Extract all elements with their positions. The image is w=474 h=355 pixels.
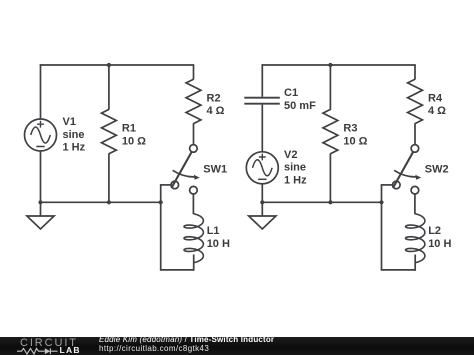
svg-text:R44 Ω: R44 Ω xyxy=(428,92,446,117)
svg-text:V2sine1 Hz: V2sine1 Hz xyxy=(284,149,307,186)
footer bar xyxy=(0,337,474,355)
wire V1 top xyxy=(40,64,42,119)
wire R4 top lead xyxy=(414,65,416,80)
svg-text:SW1: SW1 xyxy=(203,164,227,176)
wire top right circuit xyxy=(262,64,416,66)
wire V1 bottom to ground xyxy=(40,151,42,216)
CircuitLab logo xyxy=(0,337,95,355)
wire R4 to SW2 xyxy=(414,123,416,145)
wire SW2 right throw to L2 xyxy=(414,194,416,214)
wire SW1 right throw to L1 xyxy=(192,194,194,214)
capacitor C1 xyxy=(244,98,279,104)
wire R2 top lead xyxy=(193,65,195,80)
wire inner bottom right xyxy=(381,269,416,271)
svg-text:R310 Ω: R310 Ω xyxy=(343,123,367,148)
wire bottom left circuit xyxy=(41,201,161,203)
wire R3 top lead xyxy=(329,65,331,110)
inductor L1 xyxy=(184,214,203,263)
node ground-right junction xyxy=(260,200,264,204)
node junction R1 bottom xyxy=(107,200,111,204)
svg-text:L110 H: L110 H xyxy=(207,225,230,250)
wire R1 top lead xyxy=(108,65,110,110)
ground left xyxy=(27,216,54,229)
inductor L2 xyxy=(406,214,425,263)
wire R3 bottom lead xyxy=(329,153,331,202)
resistor R1 xyxy=(102,109,117,153)
wire C1 to V2 xyxy=(261,105,263,152)
wire C1 top lead xyxy=(261,64,263,97)
wire R2 to SW1 xyxy=(193,123,195,145)
switch SW2 xyxy=(393,145,422,194)
switch SW1 xyxy=(171,145,200,194)
footer text xyxy=(99,336,274,354)
wire SW1 left throw xyxy=(160,184,171,186)
wire L1 bottom lead xyxy=(193,255,195,271)
node ground-left junction xyxy=(38,200,42,204)
resistor R2 xyxy=(186,79,201,123)
svg-text:L210 H: L210 H xyxy=(428,225,451,250)
svg-text:SW2: SW2 xyxy=(425,164,449,176)
wire V2 bottom to ground xyxy=(261,184,263,216)
node junction R3 bottom xyxy=(328,200,332,204)
resistor R4 xyxy=(408,79,423,123)
node junction R1 top xyxy=(107,63,111,67)
svg-text:R110 Ω: R110 Ω xyxy=(122,123,146,148)
node junction R3 top xyxy=(328,63,332,67)
wire R1 bottom lead xyxy=(108,153,110,202)
wire L2 bottom lead xyxy=(414,255,416,271)
voltage source V1 xyxy=(25,119,57,151)
wire bottom right circuit xyxy=(262,201,381,203)
wire inner-left vertical xyxy=(160,185,162,270)
wire inner bottom xyxy=(160,269,194,271)
svg-text:R24 Ω: R24 Ω xyxy=(207,92,225,117)
node junction bottom-right inner xyxy=(379,200,383,204)
svg-text:V1sine1 Hz: V1sine1 Hz xyxy=(63,116,86,153)
resistor R3 xyxy=(323,109,338,153)
svg-text:C150 mF: C150 mF xyxy=(284,87,316,112)
wire top left circuit xyxy=(40,64,195,66)
ground right xyxy=(249,216,276,229)
voltage source V2 xyxy=(246,152,278,184)
node junction bottom-left inner xyxy=(159,200,163,204)
wire SW2 left throw xyxy=(381,184,393,186)
wire inner-left vertical right xyxy=(381,185,383,270)
